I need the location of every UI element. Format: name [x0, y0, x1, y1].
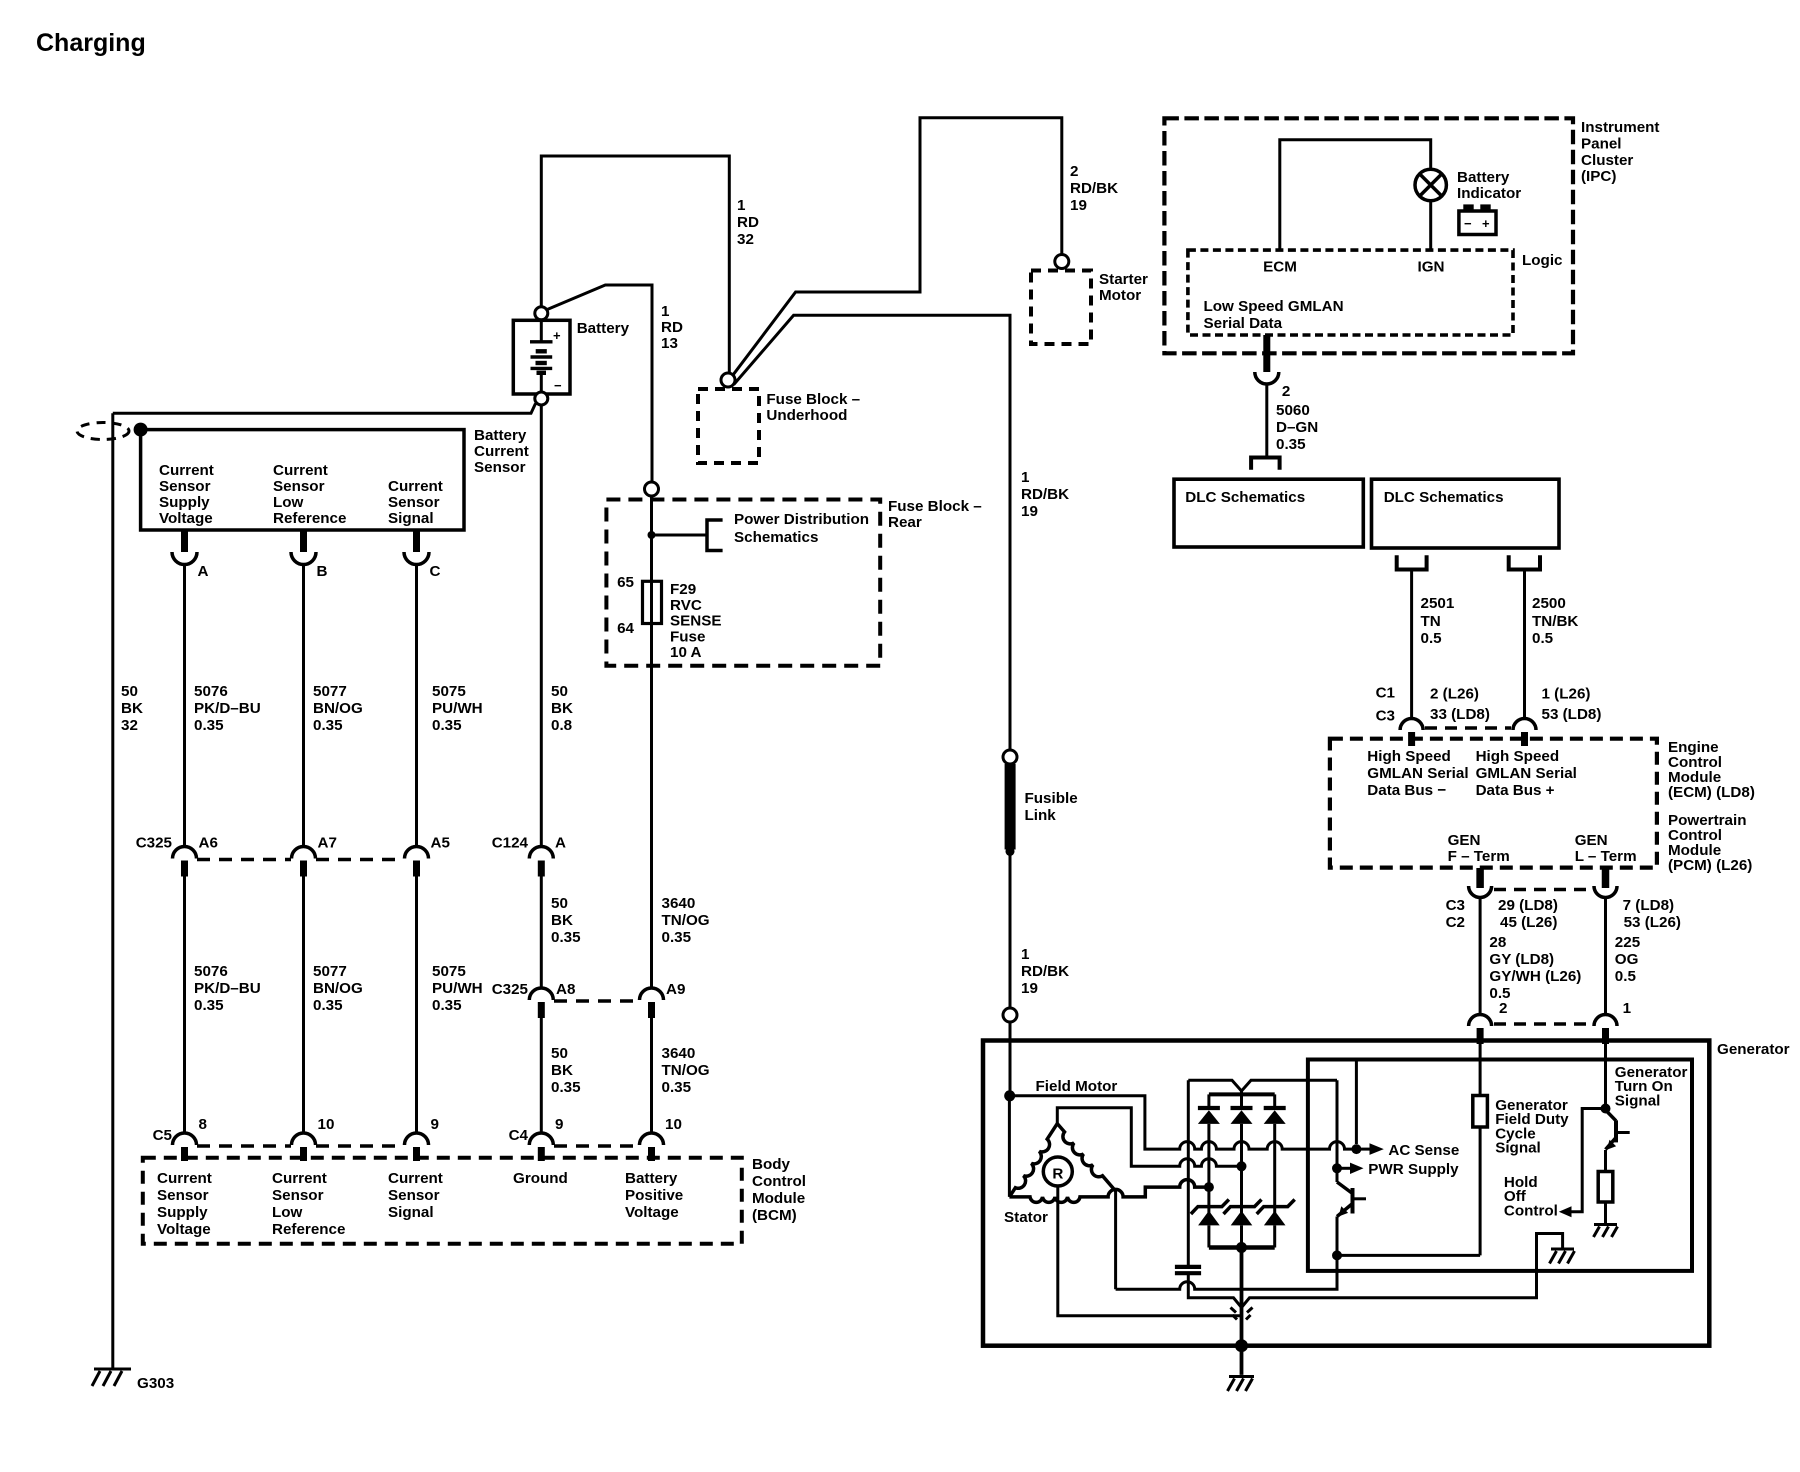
svg-text:BN/OG: BN/OG: [313, 980, 363, 997]
svg-text:2: 2: [1499, 1000, 1507, 1017]
wire stator right phase down to regulator bus: [1114, 1191, 1117, 1289]
svg-text:BK: BK: [551, 1062, 573, 1079]
node generator B+ terminal: [1003, 1008, 1017, 1022]
svg-text:0.35: 0.35: [432, 997, 462, 1014]
svg-text:Battery: Battery: [474, 427, 527, 444]
connector C325 pin A6: [173, 847, 197, 859]
svg-text:Data Bus −: Data Bus −: [1367, 782, 1446, 799]
svg-text:Signal: Signal: [388, 510, 434, 527]
capacitor C1: [1187, 1080, 1190, 1265]
svg-text:SENSE: SENSE: [670, 613, 722, 630]
node stator phase to diode column 1: [1204, 1182, 1214, 1192]
svg-text:Underhood: Underhood: [766, 407, 847, 424]
svg-text:Stator: Stator: [1004, 1209, 1048, 1226]
wire left ground run from sensor feed to G303: [111, 413, 114, 1369]
wire A8 to C4 pin 9: [540, 1018, 543, 1133]
svg-text:0.35: 0.35: [313, 717, 343, 734]
svg-text:3640: 3640: [662, 1045, 696, 1062]
connector C4 pin 10: [640, 1133, 664, 1145]
svg-text:225: 225: [1615, 934, 1641, 951]
starter motor: [1031, 271, 1091, 345]
svg-text:C4: C4: [509, 1127, 529, 1144]
svg-text:5076: 5076: [194, 683, 228, 700]
svg-text:AC Sense: AC Sense: [1388, 1142, 1459, 1159]
connector generator pin 1: [1594, 1015, 1617, 1027]
svg-text:Current: Current: [388, 478, 443, 495]
svg-text:Fuse Block –: Fuse Block –: [766, 391, 860, 408]
svg-text:(BCM): (BCM): [752, 1207, 797, 1224]
svg-text:0.35: 0.35: [1276, 436, 1306, 453]
svg-text:TN/OG: TN/OG: [662, 912, 710, 929]
wire battery negative drop to BCM ground: [540, 405, 543, 847]
svg-text:0.35: 0.35: [194, 717, 224, 734]
node field motor junction: [1004, 1090, 1015, 1101]
node sensor feed junction: [134, 423, 148, 437]
svg-text:13: 13: [661, 335, 678, 352]
connector pin A of battery current sensor: [181, 530, 188, 552]
wire sensor C to C325: [415, 565, 418, 847]
svg-text:C2: C2: [1446, 914, 1465, 931]
svg-text:Sensor: Sensor: [388, 494, 440, 511]
resistor generator field duty: [1479, 1044, 1482, 1096]
voltage regulator box: [1308, 1060, 1692, 1271]
resistor turn on pull down: [1604, 1150, 1607, 1172]
node power distribution tap: [648, 531, 656, 539]
svg-text:Control: Control: [1504, 1202, 1558, 1219]
svg-text:RD: RD: [737, 214, 759, 231]
transistor Q2 turn on: [1606, 1110, 1617, 1121]
svg-text:A8: A8: [556, 981, 575, 998]
diode D6 lower zener (column 3): [1264, 1211, 1286, 1226]
wire generator B+ into case: [1009, 1022, 1012, 1096]
node stator phase to diode column 2: [1237, 1161, 1247, 1171]
wire hold off control: [1571, 1109, 1606, 1212]
wire C325 to BCM column 1: [183, 877, 186, 1134]
svg-text:0.5: 0.5: [1532, 630, 1554, 647]
svg-text:Reference: Reference: [273, 510, 346, 527]
svg-text:PU/WH: PU/WH: [432, 700, 483, 717]
svg-text:Low: Low: [273, 494, 304, 511]
wire C325 to BCM column 3: [415, 877, 418, 1134]
svg-text:Motor: Motor: [1099, 287, 1141, 304]
svg-text:BN/OG: BN/OG: [313, 700, 363, 717]
svg-text:ECM: ECM: [1263, 259, 1297, 276]
node turn on collector tap: [1601, 1104, 1611, 1114]
rotor R: [1043, 1157, 1072, 1186]
svg-text:Current: Current: [159, 462, 214, 479]
wire emitter junction to field duty cycle: [1337, 1254, 1480, 1257]
lamp battery indicator: [1415, 169, 1446, 200]
fusible link: [1005, 764, 1016, 850]
node fuse block underhood terminal: [721, 373, 735, 387]
svg-text:DLC Schematics: DLC Schematics: [1185, 489, 1305, 506]
svg-text:PU/WH: PU/WH: [432, 980, 483, 997]
svg-text:Indicator: Indicator: [1457, 185, 1521, 202]
svg-text:Current: Current: [273, 462, 328, 479]
svg-text:2 (L26): 2 (L26): [1430, 686, 1479, 703]
svg-text:RD/BK: RD/BK: [1070, 180, 1118, 197]
svg-text:Fusible: Fusible: [1025, 790, 1078, 807]
svg-text:64: 64: [617, 620, 634, 637]
svg-text:Voltage: Voltage: [157, 1221, 211, 1238]
svg-text:Fuse Block –: Fuse Block –: [888, 498, 982, 515]
svg-text:1: 1: [661, 303, 670, 320]
svg-text:Data Bus +: Data Bus +: [1476, 782, 1555, 799]
battery B1: [513, 320, 570, 394]
svg-text:Sensor: Sensor: [474, 459, 526, 476]
svg-text:Cluster: Cluster: [1581, 152, 1633, 169]
svg-text:1: 1: [1021, 946, 1030, 963]
svg-text:A5: A5: [431, 835, 451, 852]
wire field motor to regulator AC sense: [1010, 1096, 1357, 1149]
arrow PWR Supply: [1337, 1167, 1351, 1170]
svg-text:F29: F29: [670, 581, 696, 598]
svg-text:Schematics: Schematics: [734, 529, 818, 546]
svg-text:Supply: Supply: [157, 1204, 208, 1221]
diode D5 lower zener (column 2): [1231, 1211, 1253, 1226]
node generator case ground junction: [1235, 1339, 1248, 1352]
wire C325 to BCM column 2: [302, 877, 305, 1134]
wire regulator top tap to AC sense node: [1355, 1062, 1358, 1145]
svg-text:65: 65: [617, 574, 634, 591]
svg-text:5075: 5075: [432, 963, 466, 980]
connector C325 pin A9: [640, 988, 664, 1000]
svg-text:C325: C325: [136, 835, 173, 852]
wire starter motor feed: [733, 118, 1062, 375]
svg-text:19: 19: [1021, 503, 1038, 520]
connector generator pin 2: [1469, 1015, 1492, 1027]
svg-text:Serial Data: Serial Data: [1204, 315, 1283, 332]
svg-text:32: 32: [737, 231, 754, 248]
svg-text:TN/OG: TN/OG: [662, 1062, 710, 1079]
svg-text:5076: 5076: [194, 963, 228, 980]
svg-text:A9: A9: [666, 981, 685, 998]
wire DLC to ECM serial bus plus: [1523, 571, 1526, 719]
node starter motor terminal: [1055, 255, 1069, 269]
svg-text:Low Speed GMLAN: Low Speed GMLAN: [1204, 298, 1344, 315]
wire DLC to ECM serial bus minus: [1410, 571, 1413, 719]
svg-text:Field Motor: Field Motor: [1036, 1078, 1118, 1095]
ground G303: [94, 1368, 131, 1371]
svg-text:53 (LD8): 53 (LD8): [1542, 706, 1602, 723]
svg-text:10: 10: [318, 1116, 335, 1133]
svg-text:PK/D–BU: PK/D–BU: [194, 700, 261, 717]
svg-text:GEN: GEN: [1575, 832, 1608, 849]
wire stator apex phase to diode column 2: [1057, 1108, 1241, 1167]
svg-text:5075: 5075: [432, 683, 466, 700]
wire field junction to stator bottom left vertex: [1008, 1096, 1011, 1197]
connector C325 pin A8: [529, 988, 553, 1000]
svg-text:32: 32: [121, 717, 138, 734]
fuse F29 RVC SENSE 10A: [643, 581, 662, 623]
svg-text:0.8: 0.8: [551, 717, 572, 734]
svg-text:50: 50: [551, 895, 568, 912]
svg-text:Current: Current: [388, 1170, 443, 1187]
svg-text:Signal: Signal: [1615, 1092, 1661, 1109]
svg-text:7 (LD8): 7 (LD8): [1623, 897, 1674, 914]
svg-text:Signal: Signal: [388, 1204, 434, 1221]
svg-text:Supply: Supply: [159, 494, 210, 511]
svg-text:9: 9: [555, 1116, 563, 1133]
battery current sensor: [141, 430, 464, 530]
svg-text:0.35: 0.35: [551, 1079, 581, 1096]
svg-text:GY (LD8): GY (LD8): [1489, 951, 1554, 968]
svg-text:TN/BK: TN/BK: [1532, 613, 1578, 630]
svg-text:Starter: Starter: [1099, 271, 1148, 288]
svg-text:Generator: Generator: [1717, 1041, 1790, 1058]
svg-text:19: 19: [1021, 980, 1038, 997]
battery indicator icon: [1459, 211, 1496, 235]
svg-text:Panel: Panel: [1581, 135, 1622, 152]
svg-text:C325: C325: [492, 981, 529, 998]
svg-text:0.5: 0.5: [1615, 968, 1637, 985]
svg-text:8: 8: [199, 1116, 207, 1133]
svg-text:Current: Current: [272, 1170, 327, 1187]
svg-text:Charging: Charging: [36, 29, 146, 57]
svg-text:Sensor: Sensor: [272, 1187, 324, 1204]
svg-text:50: 50: [551, 683, 568, 700]
svg-text:Battery: Battery: [577, 320, 630, 337]
svg-text:Power Distribution: Power Distribution: [734, 511, 869, 528]
wire lamp to IGN: [1429, 201, 1432, 250]
svg-text:Battery: Battery: [1457, 169, 1510, 186]
wire sensor A to C325: [183, 565, 186, 847]
svg-text:BK: BK: [551, 912, 573, 929]
rectifier top bar: [1209, 1092, 1275, 1096]
svg-text:Fuse: Fuse: [670, 628, 705, 645]
node PWR supply tap: [1332, 1163, 1342, 1173]
connector pin B of battery current sensor: [300, 530, 307, 552]
node fusible link top terminal: [1003, 750, 1017, 764]
connector pin C of battery current sensor: [413, 530, 420, 552]
svg-text:2: 2: [1070, 163, 1078, 180]
svg-text:Voltage: Voltage: [159, 510, 213, 527]
svg-text:F – Term: F – Term: [1448, 848, 1510, 865]
stator winding left phase: [1009, 1124, 1057, 1197]
wire rotor lead to ground bus: [1058, 1186, 1242, 1316]
svg-text:19: 19: [1070, 197, 1087, 214]
svg-text:(ECM) (LD8): (ECM) (LD8): [1668, 784, 1755, 801]
svg-text:RD/BK: RD/BK: [1021, 486, 1069, 503]
svg-text:High Speed: High Speed: [1476, 748, 1560, 765]
svg-text:50: 50: [121, 683, 138, 700]
ground regulator internal: [1551, 1248, 1574, 1251]
svg-text:5077: 5077: [313, 683, 347, 700]
svg-text:33 (LD8): 33 (LD8): [1430, 706, 1490, 723]
svg-text:OG: OG: [1615, 951, 1639, 968]
funnel feather ticks: [1231, 1308, 1237, 1313]
svg-text:0.35: 0.35: [551, 929, 581, 946]
connector C5 pin 9: [405, 1133, 429, 1145]
connector C325 pin A7: [292, 847, 316, 859]
wire phase bus to transistor emitter: [1116, 1217, 1337, 1290]
svg-text:A: A: [198, 563, 209, 580]
wire IPC to DLC: [1265, 384, 1268, 456]
svg-text:−: −: [554, 378, 562, 393]
bracket to DLC schematics: [1251, 458, 1280, 470]
ground generator case: [1229, 1375, 1254, 1378]
svg-text:1 (L26): 1 (L26): [1542, 686, 1591, 703]
svg-text:Sensor: Sensor: [388, 1187, 440, 1204]
svg-text:3640: 3640: [662, 895, 696, 912]
svg-text:IGN: IGN: [1417, 259, 1444, 276]
svg-text:L – Term: L – Term: [1575, 848, 1637, 865]
connector GEN F-Term pins C3/C2: [1476, 868, 1484, 888]
svg-text:Current: Current: [474, 443, 529, 460]
svg-text:(IPC): (IPC): [1581, 168, 1616, 185]
svg-text:28: 28: [1489, 934, 1506, 951]
connector C5 pin 8: [173, 1133, 197, 1145]
svg-text:Sensor: Sensor: [157, 1187, 209, 1204]
svg-text:0.35: 0.35: [432, 717, 462, 734]
stator winding bottom phase to rectifier: [1009, 1180, 1209, 1203]
svg-text:Link: Link: [1025, 807, 1057, 824]
svg-text:2: 2: [1282, 383, 1290, 400]
transistor Q1 field driver: [1336, 1080, 1339, 1182]
wire battery negative C124 to C325 A8: [540, 877, 543, 989]
wire generator feed from underhood fuse block: [734, 315, 1010, 750]
svg-text:(PCM) (L26): (PCM) (L26): [1668, 857, 1752, 874]
svg-text:High Speed: High Speed: [1367, 748, 1451, 765]
node rectifier negative junction: [1236, 1242, 1247, 1253]
svg-text:Current: Current: [157, 1170, 212, 1187]
wire L-term turn on signal: [1604, 1044, 1607, 1110]
connector pin 2 of IPC: [1263, 335, 1270, 372]
DLC Schematics box 2: [1372, 479, 1560, 548]
svg-text:29 (LD8): 29 (LD8): [1498, 897, 1558, 914]
svg-text:Signal: Signal: [1495, 1140, 1541, 1157]
connector into ECM pin 33: [1400, 719, 1423, 730]
diode D3 top (column 3): [1273, 1094, 1276, 1108]
svg-text:1: 1: [1021, 469, 1030, 486]
connector C4 pin 9: [529, 1133, 553, 1145]
svg-text:−: −: [1464, 216, 1472, 231]
bracket below DLC box2 left: [1397, 555, 1427, 569]
diode D2 top (column 2): [1240, 1094, 1243, 1108]
svg-text:5077: 5077: [313, 963, 347, 980]
svg-text:Sensor: Sensor: [159, 478, 211, 495]
svg-text:Sensor: Sensor: [273, 478, 325, 495]
svg-text:Logic: Logic: [1522, 252, 1563, 269]
svg-text:0.35: 0.35: [313, 997, 343, 1014]
svg-text:BK: BK: [121, 700, 143, 717]
svg-text:R: R: [1052, 1166, 1063, 1183]
svg-text:45 (L26): 45 (L26): [1500, 914, 1557, 931]
wire power distribution tap: [652, 534, 708, 537]
power distribution schematics bracket: [707, 520, 723, 551]
diode D1 top (column 1): [1207, 1094, 1210, 1108]
svg-text:RD: RD: [661, 319, 683, 336]
stator winding right phase: [1057, 1124, 1115, 1191]
svg-text:GMLAN Serial: GMLAN Serial: [1367, 765, 1468, 782]
svg-text:+: +: [1482, 216, 1490, 231]
svg-text:BK: BK: [551, 700, 573, 717]
node transistor emitter to field duty junction: [1332, 1250, 1342, 1260]
svg-text:PK/D–BU: PK/D–BU: [194, 980, 261, 997]
engine control module ECM/PCM: [1330, 739, 1657, 868]
wire battery negative to sensor area: [113, 404, 536, 414]
svg-text:GMLAN Serial: GMLAN Serial: [1476, 765, 1577, 782]
svg-text:10: 10: [665, 1116, 682, 1133]
svg-text:2501: 2501: [1421, 595, 1455, 612]
logic box: [1188, 250, 1513, 335]
svg-text:9: 9: [431, 1116, 439, 1133]
node fuse block rear terminal: [645, 482, 659, 496]
connector C325 pin A5: [405, 847, 429, 859]
wire capacitor bottom to negative funnel: [1188, 1234, 1562, 1308]
svg-text:Low: Low: [272, 1204, 303, 1221]
bracket below DLC box2 right: [1509, 555, 1540, 569]
wire fusible link to generator: [1009, 851, 1012, 1008]
wire battery positive branch to fuse block rear: [547, 285, 652, 482]
svg-text:C3: C3: [1376, 708, 1395, 725]
wire rectifier B+ top rail: [1188, 1080, 1337, 1091]
body control module BCM: [143, 1158, 742, 1244]
svg-text:Ground: Ground: [513, 1170, 568, 1187]
connector into ECM pin 53: [1513, 719, 1536, 730]
rectifier bottom bar: [1209, 1245, 1275, 1250]
wire rectifier column 1: [1207, 1124, 1210, 1213]
svg-text:0.5: 0.5: [1421, 630, 1443, 647]
wire rectifier column 3: [1273, 1124, 1276, 1213]
svg-text:Rear: Rear: [888, 514, 922, 531]
svg-text:1: 1: [737, 197, 746, 214]
connector C5 pin 10: [292, 1133, 316, 1145]
instrument panel cluster IPC: [1164, 118, 1573, 353]
wire battery positive riser to fuse block underhood: [541, 156, 729, 373]
svg-text:A6: A6: [199, 835, 218, 852]
svg-text:0.35: 0.35: [662, 1079, 692, 1096]
svg-text:A: A: [555, 835, 566, 852]
svg-text:C3: C3: [1446, 897, 1465, 914]
svg-text:53 (L26): 53 (L26): [1624, 914, 1681, 931]
arrow AC Sense: [1361, 1148, 1370, 1151]
wire fuse block rear internal: [650, 496, 653, 581]
fuse block underhood: [698, 389, 759, 463]
svg-text:A7: A7: [318, 835, 337, 852]
svg-text:0.35: 0.35: [194, 997, 224, 1014]
wire ECM F-Term to generator: [1479, 898, 1482, 1016]
wire A9 to C4 pin 10: [650, 1018, 653, 1133]
node battery negative terminal: [535, 392, 548, 405]
connector C124 pin A: [529, 847, 553, 859]
wire rectifier column 2: [1240, 1124, 1243, 1213]
svg-text:B: B: [317, 563, 328, 580]
svg-text:RVC: RVC: [670, 597, 702, 614]
ground turn on resistor: [1594, 1223, 1617, 1226]
svg-text:50: 50: [551, 1045, 568, 1062]
svg-text:GY/WH (L26): GY/WH (L26): [1489, 968, 1581, 985]
svg-text:Positive: Positive: [625, 1187, 683, 1204]
svg-text:GEN: GEN: [1448, 832, 1481, 849]
diode D4 lower zener (column 1): [1198, 1211, 1220, 1226]
generator outer case: [983, 1041, 1709, 1346]
svg-text:DLC Schematics: DLC Schematics: [1384, 489, 1504, 506]
fuse block rear: [606, 500, 880, 666]
svg-text:RD/BK: RD/BK: [1021, 963, 1069, 980]
svg-text:TN: TN: [1421, 613, 1441, 630]
svg-text:2500: 2500: [1532, 595, 1566, 612]
wire ECM L-Term to generator: [1604, 898, 1607, 1016]
DLC Schematics box 1: [1174, 479, 1363, 547]
svg-text:D–GN: D–GN: [1276, 419, 1318, 436]
svg-text:Reference: Reference: [272, 1221, 345, 1238]
connector GEN L-Term pins: [1602, 868, 1610, 888]
wire sensor B to C325: [302, 565, 305, 847]
svg-text:Battery: Battery: [625, 1170, 678, 1187]
wire ECM input to battery indicator: [1280, 140, 1431, 250]
svg-text:C: C: [430, 563, 441, 580]
